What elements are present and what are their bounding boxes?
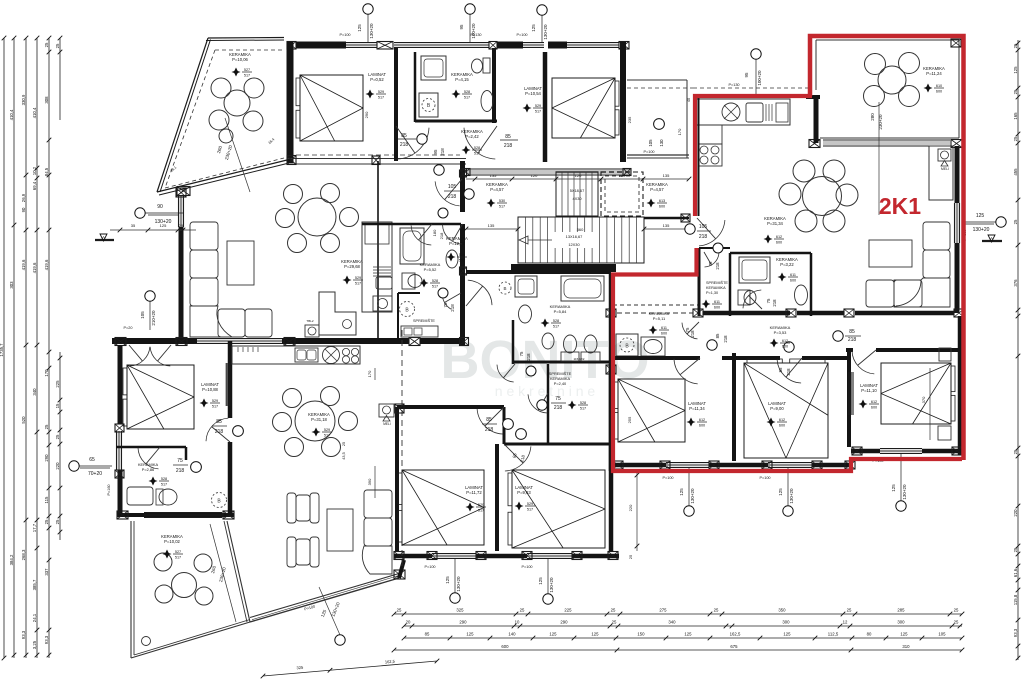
svg-text:527: 527	[175, 550, 181, 554]
svg-text:218: 218	[699, 234, 708, 240]
marker 95/100+20 kitchen	[751, 49, 761, 59]
svg-text:517: 517	[527, 507, 533, 511]
svg-text:528: 528	[161, 477, 167, 481]
svg-text:KERAMIKA: KERAMIKA	[706, 286, 726, 290]
wall x494 bath east	[492, 48, 496, 123]
svg-text:125: 125	[445, 576, 450, 584]
svg-text:125: 125	[684, 632, 692, 637]
svg-text:25: 25	[1013, 136, 1018, 141]
svg-text:125: 125	[531, 24, 536, 32]
svg-text:225: 225	[564, 608, 572, 613]
svg-text:P=10,88: P=10,88	[202, 387, 218, 392]
svg-text:P=31,34: P=31,34	[767, 221, 783, 226]
svg-text:280: 280	[870, 113, 875, 121]
svg-text:P=20: P=20	[124, 326, 133, 330]
svg-text:105: 105	[938, 632, 946, 637]
bed bottom room1	[402, 470, 484, 545]
svg-text:P=11,10: P=11,10	[861, 388, 877, 393]
svg-text:600: 600	[659, 204, 665, 208]
svg-text:528: 528	[474, 146, 480, 150]
svg-text:115,1X2: 115,1X2	[574, 357, 585, 361]
svg-text:125: 125	[976, 213, 985, 219]
svg-text:611: 611	[661, 326, 667, 330]
svg-text:25: 25	[44, 519, 49, 524]
svg-text:520: 520	[21, 416, 26, 424]
svg-text:P=5,84: P=5,84	[554, 309, 568, 314]
svg-text:325: 325	[296, 665, 304, 671]
svg-text:4X30: 4X30	[572, 196, 582, 201]
svg-text:360: 360	[577, 227, 584, 232]
svg-text:TBL2: TBL2	[306, 319, 314, 323]
svg-text:75: 75	[708, 261, 713, 266]
marker 90/130+20	[135, 208, 145, 218]
bed 2K1 room3	[881, 363, 951, 424]
svg-text:218: 218	[450, 304, 455, 312]
svg-text:528: 528	[580, 401, 586, 405]
svg-text:1735,7: 1735,7	[0, 343, 4, 357]
2K1 storage	[699, 247, 730, 249]
black wall beside red	[698, 96, 700, 216]
svg-text:308: 308	[44, 96, 49, 104]
svg-text:125: 125	[160, 223, 167, 228]
svg-text:P=5,52: P=5,52	[424, 267, 438, 272]
marker 125/130+20 right	[996, 217, 1006, 227]
svg-text:600: 600	[776, 240, 782, 244]
svg-text:527: 527	[244, 68, 250, 72]
svg-text:218: 218	[848, 337, 857, 343]
svg-text:120: 120	[575, 173, 582, 178]
corridor door left	[398, 128, 429, 159]
svg-text:330,9: 330,9	[21, 94, 26, 105]
svg-text:P=100: P=100	[424, 565, 435, 569]
svg-text:135: 135	[663, 173, 670, 178]
svg-text:B: B	[503, 286, 506, 291]
svg-text:517: 517	[499, 204, 505, 208]
svg-text:93,3: 93,3	[44, 635, 49, 644]
door bedroom3 2K1	[852, 351, 874, 374]
svg-text:130: 130	[659, 139, 664, 147]
svg-text:115: 115	[44, 496, 49, 503]
svg-text:290: 290	[364, 111, 369, 118]
svg-text:SPREMIŠTE: SPREMIŠTE	[413, 318, 435, 323]
MELI 2	[379, 404, 394, 417]
door bedroom2 2K1	[777, 360, 801, 383]
svg-text:125: 125	[783, 632, 791, 637]
bottom-left bathroom	[138, 448, 159, 469]
bed bottom room2	[512, 470, 605, 548]
svg-text:25: 25	[954, 608, 959, 613]
east wall segments	[955, 146, 960, 203]
svg-text:125: 125	[891, 484, 896, 492]
spine wall x462	[460, 161, 465, 212]
shaft	[929, 146, 953, 200]
svg-text:180: 180	[432, 229, 437, 236]
svg-text:528: 528	[432, 279, 438, 283]
svg-text:235: 235	[627, 116, 632, 123]
svg-text:218: 218	[504, 143, 513, 149]
2K1 dining table	[803, 177, 842, 216]
svg-text:529: 529	[324, 428, 330, 432]
svg-text:85: 85	[486, 417, 492, 423]
svg-text:162,5: 162,5	[385, 659, 396, 665]
svg-text:75: 75	[519, 351, 524, 356]
svg-text:P=2,86: P=2,86	[142, 467, 154, 472]
svg-text:n e k r e t n i n e: n e k r e t n i n e	[495, 383, 596, 399]
svg-text:170: 170	[677, 128, 682, 135]
svg-text:130+20: 130+20	[973, 227, 990, 233]
svg-text:P=3,22: P=3,22	[780, 262, 794, 267]
svg-text:125: 125	[466, 632, 474, 637]
svg-text:70+20: 70+20	[88, 471, 102, 477]
marker 65/70+20	[69, 461, 79, 471]
svg-text:130+20: 130+20	[690, 488, 695, 504]
svg-text:140: 140	[508, 632, 516, 637]
svg-text:90: 90	[157, 204, 163, 210]
2K1 terrace inner	[816, 39, 959, 41]
hall door spine	[443, 225, 463, 244]
svg-text:130+20: 130+20	[549, 577, 554, 593]
svg-text:218: 218	[440, 148, 445, 156]
svg-text:613: 613	[659, 199, 665, 203]
wall corner left of terrace	[806, 95, 820, 99]
marker 105/210+20	[145, 291, 155, 301]
section marker A left	[95, 239, 114, 241]
svg-text:85: 85	[425, 632, 430, 637]
2K1 sofa and table	[923, 222, 950, 250]
svg-text:3,25: 3,25	[32, 640, 37, 649]
svg-text:26,9: 26,9	[21, 193, 26, 202]
svg-text:285: 285	[897, 608, 905, 613]
svg-text:P=11,72: P=11,72	[466, 490, 482, 495]
svg-text:120: 120	[531, 173, 538, 178]
svg-text:218: 218	[400, 142, 409, 148]
svg-text:25: 25	[1013, 219, 1018, 224]
svg-text:25: 25	[55, 434, 60, 439]
svg-text:370: 370	[921, 396, 926, 403]
middle bath tub room	[362, 223, 461, 226]
svg-text:P=100: P=100	[521, 565, 532, 569]
left storage room	[397, 293, 399, 341]
svg-text:25: 25	[55, 519, 60, 524]
svg-text:455: 455	[1013, 168, 1018, 176]
svg-text:529: 529	[527, 502, 533, 506]
svg-text:112,5: 112,5	[828, 632, 839, 637]
svg-text:5X18,67: 5X18,67	[570, 188, 585, 193]
svg-text:218: 218	[715, 262, 720, 270]
svg-text:612: 612	[782, 339, 788, 343]
bed bedroom2	[552, 78, 615, 138]
svg-text:P=11,34: P=11,34	[689, 406, 705, 411]
east window	[954, 203, 956, 243]
svg-text:419,6: 419,6	[32, 262, 37, 273]
svg-text:12X30: 12X30	[568, 242, 580, 247]
wall west of bedroom1	[287, 42, 294, 163]
svg-text:600: 600	[714, 305, 720, 309]
NW terrace table	[224, 90, 250, 116]
svg-text:517: 517	[244, 73, 250, 77]
bottom-left apartment walls	[118, 345, 123, 424]
svg-text:P=4,57: P=4,57	[490, 187, 504, 192]
svg-text:600: 600	[936, 89, 942, 93]
svg-text:69,4: 69,4	[32, 181, 37, 190]
svg-text:P=0,52: P=0,52	[370, 77, 384, 82]
svg-text:390: 390	[367, 478, 372, 485]
bath divider y120	[415, 120, 497, 123]
svg-text:300: 300	[897, 620, 905, 625]
glazed wall y161	[287, 158, 466, 160]
svg-text:517: 517	[474, 151, 480, 155]
svg-text:75: 75	[443, 302, 448, 308]
svg-text:25: 25	[1013, 547, 1018, 552]
svg-text:300: 300	[782, 620, 790, 625]
bottom-left bedroom	[130, 347, 150, 366]
svg-text:419,6: 419,6	[21, 259, 26, 270]
svg-text:125: 125	[1013, 66, 1018, 74]
2K1 corridor north wall	[617, 312, 693, 314]
svg-text:75: 75	[177, 458, 183, 464]
svg-text:530: 530	[499, 199, 505, 203]
svg-text:517: 517	[324, 433, 330, 437]
svg-text:P=12,52: P=12,52	[449, 241, 465, 246]
svg-text:410,4: 410,4	[32, 107, 37, 118]
svg-text:303: 303	[9, 281, 14, 289]
svg-text:93,3: 93,3	[21, 630, 26, 639]
svg-text:25: 25	[397, 608, 402, 613]
svg-text:600: 600	[699, 423, 705, 427]
svg-text:529: 529	[535, 104, 541, 108]
svg-text:84,5: 84,5	[44, 167, 49, 176]
door bottom room1	[477, 409, 503, 434]
svg-text:517: 517	[432, 284, 438, 288]
2K1 west bathroom	[613, 304, 699, 306]
svg-text:600: 600	[779, 423, 785, 427]
svg-text:218: 218	[176, 468, 185, 474]
top marker 2	[465, 4, 475, 14]
balcony bedroom2	[627, 79, 687, 81]
svg-text:75: 75	[555, 396, 561, 402]
svg-text:85: 85	[401, 133, 407, 139]
svg-text:P=1,30: P=1,30	[706, 291, 718, 295]
svg-text:517: 517	[535, 109, 541, 113]
svg-text:120: 120	[619, 173, 626, 178]
svg-text:612: 612	[699, 418, 705, 422]
svg-text:85: 85	[216, 419, 222, 425]
svg-text:25: 25	[611, 608, 616, 613]
svg-text:A: A	[102, 235, 105, 240]
wall x415	[414, 52, 417, 122]
svg-text:125: 125	[549, 632, 557, 637]
svg-text:310: 310	[902, 644, 910, 649]
svg-text:25: 25	[1013, 43, 1018, 48]
svg-text:218: 218	[485, 427, 494, 433]
svg-text:125: 125	[778, 488, 783, 496]
right dimension line	[1017, 40, 1019, 660]
wall x623	[620, 42, 626, 162]
svg-text:125: 125	[591, 632, 599, 637]
middle apt storage	[547, 364, 550, 444]
svg-text:105: 105	[140, 311, 145, 319]
svg-text:25: 25	[342, 442, 346, 446]
svg-text:95: 95	[744, 72, 749, 78]
svg-text:611: 611	[790, 273, 796, 277]
svg-text:170: 170	[367, 370, 372, 377]
svg-text:218: 218	[786, 368, 791, 376]
svg-text:135: 135	[488, 223, 495, 228]
svg-text:90: 90	[21, 207, 26, 212]
svg-text:220: 220	[1013, 509, 1018, 517]
svg-text:517: 517	[459, 258, 465, 262]
bottom-middle room walls	[397, 405, 504, 409]
svg-text:218: 218	[554, 405, 563, 411]
svg-text:25: 25	[628, 554, 633, 559]
svg-text:275: 275	[659, 608, 667, 613]
svg-text:25: 25	[847, 608, 852, 613]
svg-text:255: 255	[627, 416, 632, 423]
svg-text:290: 290	[44, 454, 49, 462]
svg-text:105: 105	[699, 224, 708, 230]
wall x545 bedroom2	[543, 52, 548, 162]
svg-text:95: 95	[459, 24, 464, 30]
svg-text:25: 25	[954, 620, 959, 625]
svg-text:P=5,11: P=5,11	[653, 316, 666, 321]
svg-text:24,1: 24,1	[32, 613, 37, 622]
svg-text:218: 218	[215, 429, 224, 435]
svg-text:105: 105	[648, 139, 653, 147]
svg-text:600: 600	[871, 405, 877, 409]
svg-text:210+20: 210+20	[151, 310, 156, 326]
svg-text:A: A	[990, 236, 993, 241]
left apartment kitchen corner	[319, 292, 356, 335]
top marker 1	[363, 4, 373, 14]
svg-text:290: 290	[459, 620, 467, 625]
bed 2K1 room1	[618, 379, 685, 442]
middle apt lower bathroom	[466, 270, 611, 274]
svg-text:P=130: P=130	[470, 33, 481, 37]
svg-text:600: 600	[661, 331, 667, 335]
svg-text:P=2,40: P=2,40	[554, 381, 567, 386]
svg-text:P=10,54: P=10,54	[525, 91, 541, 96]
svg-text:517: 517	[212, 404, 218, 408]
svg-text:P=100: P=100	[643, 150, 654, 154]
svg-text:150: 150	[637, 632, 645, 637]
bottom-middle furniture	[232, 346, 360, 364]
svg-text:P=11,24: P=11,24	[926, 71, 942, 76]
svg-text:376: 376	[1013, 279, 1018, 287]
svg-text:218: 218	[723, 335, 728, 343]
svg-text:162,5: 162,5	[730, 632, 741, 637]
svg-text:529: 529	[355, 276, 361, 280]
svg-text:337: 337	[44, 568, 49, 576]
slant window marker	[319, 587, 340, 635]
dashed section line bedroom1	[296, 154, 460, 156]
svg-text:135: 135	[663, 223, 670, 228]
bed bedroom1 top	[300, 75, 363, 141]
corridor door right	[464, 128, 495, 159]
svg-text:13X16,67: 13X16,67	[566, 234, 583, 239]
svg-text:P=3,53: P=3,53	[774, 330, 788, 335]
svg-text:529: 529	[459, 253, 465, 257]
pillar terrace corner	[951, 39, 961, 47]
2K1 terrace table	[878, 66, 906, 94]
bottom-left terrace	[130, 521, 132, 658]
svg-text:40: 40	[687, 98, 691, 102]
svg-text:385,7: 385,7	[32, 579, 37, 590]
door bottom room2	[505, 446, 531, 471]
svg-text:P=100: P=100	[759, 476, 770, 480]
slanted window wall	[250, 578, 399, 622]
svg-text:517: 517	[161, 482, 167, 486]
svg-text:P=100: P=100	[516, 33, 527, 37]
svg-text:675: 675	[730, 644, 738, 649]
svg-text:25: 25	[1013, 449, 1018, 454]
svg-text:268,3: 268,3	[21, 549, 26, 560]
svg-text:340: 340	[668, 620, 676, 625]
NW terrace boundary	[208, 37, 284, 40]
svg-text:P=4,57: P=4,57	[650, 187, 664, 192]
svg-text:12: 12	[843, 620, 848, 625]
svg-text:611: 611	[714, 300, 720, 304]
svg-text:325: 325	[456, 608, 464, 613]
svg-text:517: 517	[553, 324, 559, 328]
svg-text:SPREMIŠTE: SPREMIŠTE	[706, 280, 728, 285]
west wall living	[178, 196, 180, 227]
door bedroom1 2K1	[674, 359, 698, 384]
2K1 inner bathroom	[730, 252, 811, 255]
svg-text:612: 612	[779, 418, 785, 422]
svg-text:130+20: 130+20	[902, 484, 907, 500]
svg-text:600: 600	[501, 644, 509, 649]
svg-text:600: 600	[782, 344, 788, 348]
svg-text:85: 85	[505, 134, 511, 140]
svg-text:612: 612	[776, 235, 782, 239]
svg-text:25: 25	[179, 223, 184, 228]
svg-text:384,2: 384,2	[9, 554, 14, 565]
svg-text:15: 15	[55, 403, 60, 408]
svg-text:130+20: 130+20	[456, 576, 461, 592]
svg-text:P=9,63: P=9,63	[517, 490, 531, 495]
svg-text:517: 517	[378, 95, 384, 99]
svg-text:115,8: 115,8	[1013, 594, 1018, 605]
svg-text:80: 80	[867, 632, 872, 637]
svg-text:218: 218	[690, 330, 695, 338]
terrace south wall	[823, 139, 950, 141]
dashed overhang line	[401, 330, 403, 570]
svg-text:25: 25	[714, 608, 719, 613]
svg-text:P=31,18: P=31,18	[311, 417, 327, 422]
svg-text:85: 85	[849, 329, 855, 335]
svg-text:2K1: 2K1	[879, 193, 921, 219]
svg-text:85: 85	[778, 367, 783, 372]
svg-text:25: 25	[44, 424, 49, 429]
svg-text:P=130: P=130	[728, 83, 739, 87]
2K1 kitchen	[693, 87, 812, 89]
svg-text:165: 165	[1013, 112, 1018, 120]
svg-text:517: 517	[175, 555, 181, 559]
svg-text:125: 125	[679, 488, 684, 496]
svg-text:P=9,00: P=9,00	[770, 406, 784, 411]
dim 220 between	[636, 470, 638, 551]
svg-text:100+20: 100+20	[757, 70, 762, 86]
2K1 bedroom walls	[613, 356, 700, 360]
svg-text:P=10,06: P=10,06	[232, 57, 248, 62]
bed 2K1 room2	[744, 363, 828, 458]
svg-text:290: 290	[560, 620, 568, 625]
kitchen strip	[377, 161, 379, 341]
svg-text:MELI: MELI	[941, 167, 949, 171]
svg-text:220: 220	[55, 462, 60, 470]
svg-text:35: 35	[131, 223, 136, 228]
svg-text:P=29,68: P=29,68	[344, 264, 360, 269]
